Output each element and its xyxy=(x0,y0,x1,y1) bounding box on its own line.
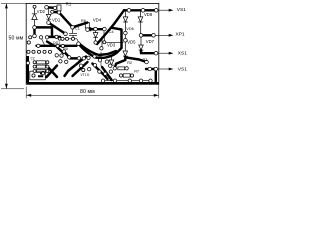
wire fan diag 2 xyxy=(65,52,70,57)
svg-text:VD4: VD4 xyxy=(93,18,102,23)
wire parallel up-right diagonal xyxy=(73,62,88,76)
pad P1 top-left xyxy=(45,6,49,10)
pad loop left bottom xyxy=(33,34,37,38)
pads top-right trace xyxy=(127,9,131,13)
pad XS1 xyxy=(154,51,158,55)
pad thin line left xyxy=(103,41,106,44)
pad T6 left xyxy=(37,44,40,47)
resistor R7 xyxy=(123,74,130,77)
pad C4 bottom xyxy=(100,47,103,50)
dimension 50mm top arrowhead xyxy=(5,3,8,8)
wire VD1 cathode diagonal xyxy=(49,23,66,34)
dimension 80mm left extension xyxy=(25,87,27,99)
wire to XS1 xyxy=(158,52,170,54)
svg-text:VD3: VD3 xyxy=(107,42,116,47)
pad P3 xyxy=(51,10,54,13)
pads bottom-left row y53 xyxy=(27,50,30,53)
pads thin row y38.8 xyxy=(58,37,61,40)
capacitor C1 xyxy=(69,29,77,37)
wire C1 node to R6 xyxy=(73,23,88,28)
svg-text:XP1: XP1 xyxy=(176,32,185,38)
pads bottom row xyxy=(101,79,104,82)
copper bus left edge xyxy=(26,56,29,84)
thin line VD5 row xyxy=(104,41,124,43)
wire loop to T6 diagonal xyxy=(47,42,55,47)
svg-text:VD2: VD2 xyxy=(37,9,46,14)
wire long horizontal T6 xyxy=(37,45,77,47)
svg-text:DD1: DD1 xyxy=(53,41,60,45)
dimension 80mm left arrowhead xyxy=(26,94,31,97)
wire VS1 bottom stub xyxy=(146,68,156,70)
wire VD5 to right pad xyxy=(126,58,147,63)
svg-text:VD6: VD6 xyxy=(126,27,133,31)
board outline xyxy=(26,3,159,84)
wire XP1 stub xyxy=(141,34,154,36)
pad VD1 bottom xyxy=(47,21,51,25)
pad VD4 right xyxy=(94,27,98,31)
pad VD2 bottom xyxy=(33,26,37,30)
diode VD6 xyxy=(123,11,128,31)
pad sweep start xyxy=(77,42,81,46)
pads R3 xyxy=(113,67,116,70)
svg-text:R7: R7 xyxy=(134,70,139,74)
pads R7 xyxy=(119,74,122,77)
wire fan diag 1 xyxy=(57,47,64,53)
pad C1 node xyxy=(71,26,75,30)
dimension 50mm bottom arrowhead xyxy=(5,84,8,89)
diode VD4 on trace xyxy=(90,27,94,31)
wire R3-R1 short segment xyxy=(52,11,59,14)
diode VD7 xyxy=(139,37,144,51)
pad VD2 top xyxy=(33,5,36,8)
resistor block bottom-left 3 xyxy=(37,69,46,72)
svg-text:R1: R1 xyxy=(66,2,72,7)
wire to XP1 xyxy=(155,34,170,36)
dimension 50mm top extension line xyxy=(1,2,26,4)
wire VD6 chain link xyxy=(124,35,126,39)
svg-text:R3: R3 xyxy=(143,58,148,62)
wire big diagonal to top-right xyxy=(97,10,124,44)
wire top-left horizontal xyxy=(47,6,56,9)
svg-text:VD7: VD7 xyxy=(146,39,155,44)
svg-text:+C1: +C1 xyxy=(73,27,80,31)
pad R6 bottom xyxy=(86,28,90,32)
copper bus bottom edge xyxy=(27,82,159,84)
pad right mid xyxy=(145,60,149,64)
resistor R1 xyxy=(57,5,61,11)
svg-text:80 мм: 80 мм xyxy=(80,89,95,95)
pads loop bottom row xyxy=(29,36,32,39)
pads VS1 bottom xyxy=(148,67,152,71)
pad C4 top xyxy=(103,27,107,31)
pad diag end xyxy=(64,32,68,36)
pad VD3 bottom xyxy=(94,41,97,44)
diode VD mid-bottom xyxy=(109,57,114,68)
wire R1 to C1 node diagonal xyxy=(59,12,73,27)
bottom pads link line xyxy=(103,80,151,82)
dimension 50mm vertical line xyxy=(5,4,7,89)
wire bottom-left X diag 2 xyxy=(47,66,58,78)
wire bottom-left X diag 1 xyxy=(47,66,58,78)
svg-text:50 мм: 50 мм xyxy=(9,36,24,42)
dimension 80mm right extension xyxy=(158,85,160,99)
svg-text:R5: R5 xyxy=(63,47,68,51)
resistor block bottom-left 1 xyxy=(37,61,46,64)
svg-text:C4: C4 xyxy=(109,30,114,34)
capacitor C4 xyxy=(102,31,104,47)
wire VD4 row horizontal xyxy=(88,28,105,30)
svg-text:C2: C2 xyxy=(31,56,35,60)
wire VS1 bottom to bus xyxy=(155,69,157,82)
wire right mid sweep xyxy=(79,28,122,58)
svg-text:R6: R6 xyxy=(81,19,86,23)
resistor R2 body xyxy=(118,67,125,70)
wire mid thick seg xyxy=(70,57,77,59)
component box bottom-left corner xyxy=(30,71,46,80)
wire mid-bottom to bus 2 xyxy=(92,64,107,79)
pads VD6 chain xyxy=(124,31,128,35)
wire VD2 loop xyxy=(35,27,53,37)
thin vert mid-bottom xyxy=(100,52,102,66)
diode VD5 xyxy=(123,42,128,57)
pad on left bus bar xyxy=(26,61,29,64)
pad P2 xyxy=(53,6,56,9)
diode VD8 xyxy=(138,11,143,33)
dimension 80mm line xyxy=(27,94,159,96)
pad R1 bottom xyxy=(57,11,60,14)
resistor block bottom-left 2 xyxy=(37,65,46,68)
diode VD2 xyxy=(32,8,37,26)
thin pad row line xyxy=(60,39,79,42)
svg-text:VS1: VS1 xyxy=(178,67,187,73)
dimension 50mm bottom extension line xyxy=(1,88,24,90)
wire mid-bottom to bus 3 xyxy=(102,67,112,80)
svg-text:VD1: VD1 xyxy=(52,17,61,22)
svg-text:XS1: XS1 xyxy=(178,51,187,57)
diode VD1 xyxy=(46,8,51,21)
pad left column extra xyxy=(27,41,30,44)
dimension 80mm right arrowhead xyxy=(154,94,159,97)
svg-text:VD5: VD5 xyxy=(127,39,136,44)
pads resistor block sides xyxy=(33,61,36,64)
svg-text:VS1: VS1 xyxy=(177,7,186,13)
pads in bottom-left box xyxy=(32,74,35,77)
pads XP1 xyxy=(139,34,143,38)
svg-text:R2: R2 xyxy=(127,61,132,65)
thin diag from loop row xyxy=(41,37,45,45)
svg-text:VD8: VD8 xyxy=(144,12,153,17)
wire VD5 bottom to R3 xyxy=(115,57,126,68)
wire loop bottom row segment xyxy=(49,36,61,38)
resistor R6 xyxy=(85,23,89,29)
diode VD3 xyxy=(93,31,98,41)
wire XS1 stub xyxy=(141,50,156,53)
wire to VS1 bottom xyxy=(157,68,170,70)
pads mid-bottom cluster xyxy=(55,54,58,57)
wire top-right horizontal xyxy=(124,9,156,11)
svg-text:VT1 Б: VT1 Б xyxy=(81,73,90,77)
wire to VS1 top xyxy=(158,9,170,11)
wire long up-right diagonal xyxy=(65,57,87,77)
wire sweep upper parallel xyxy=(80,44,116,55)
